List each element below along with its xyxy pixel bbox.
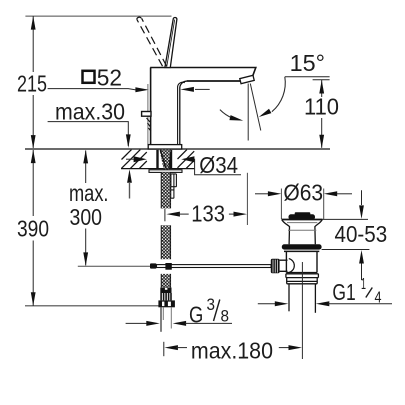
pull rod line (147, 84, 149, 145)
flexible hose braided segment 2 (161, 225, 171, 259)
dimension G1 1/4 (258, 303, 275, 305)
svg-text:3: 3 (207, 296, 216, 314)
pull-rod knob on left of body (142, 112, 151, 117)
flexible hose braided segment 3 (161, 274, 171, 287)
ball joint arc inside body (289, 259, 295, 273)
flexible hose braided segment 1 (161, 172, 171, 208)
counter bottom line (121, 168, 194, 170)
knurled knob (271, 259, 280, 274)
wire: extension line at lever-tip level (25, 15, 171, 17)
top edge and spout (150, 68, 256, 77)
dimension max.30 lower up arrow (127, 169, 132, 183)
drain flange (282, 219, 323, 221)
dimension 40-53 upper reference and arrow (323, 218, 369, 220)
drain lower band (287, 278, 318, 284)
svg-text:G1: G1 (332, 279, 355, 305)
faucet base plate (148, 145, 182, 149)
dimension 215 vertical line (32, 16, 34, 148)
dimension Ø63 (255, 193, 269, 195)
secondary stud right of hose (171, 174, 177, 198)
dimension G3/8 arrows (126, 322, 147, 324)
countertop cross-section hatching right (178, 150, 195, 169)
dimension 133 (164, 209, 166, 221)
rod joint at hose (165, 263, 171, 270)
hose end nut G3/8 (158, 300, 175, 307)
pop-up rod extension line (78, 265, 151, 267)
svg-text:40-53: 40-53 (335, 221, 388, 247)
drain lower ring (286, 274, 319, 278)
countertop cross-section hatching left (122, 150, 147, 169)
svg-text:110: 110 (304, 94, 339, 120)
pop-up rod horizontal (157, 265, 272, 268)
knob stem cylinder (280, 260, 288, 271)
lever handle (dashed alternate position) (137, 17, 167, 66)
dimension max.30 leader and down arrow (48, 122, 129, 146)
angle arc left segment with arrow (220, 110, 232, 118)
drain plug cap (289, 214, 316, 219)
dimension 390 vertical line (32, 150, 34, 306)
mounting nut side bars (156, 150, 158, 169)
faucet body outline (148, 68, 256, 145)
svg-text:52: 52 (97, 64, 122, 90)
Ø63 extension lines (280, 189, 282, 220)
hose crimp sleeve (160, 288, 171, 294)
washer under counter (149, 170, 182, 173)
svg-text:max.30: max.30 (55, 99, 125, 125)
drain tailpipe (288, 284, 290, 312)
dimension max.180 (163, 342, 165, 356)
dimension 110 (313, 79, 330, 81)
svg-text:1: 1 (361, 276, 366, 293)
drain center line (301, 262, 303, 359)
svg-text:max.: max. (69, 180, 109, 206)
label square-52 with underline leader and arrows (83, 71, 95, 83)
extension line for 133 at spout outlet (246, 173, 248, 225)
left wall (150, 68, 152, 145)
threaded shank (stippled, tapered) (160, 150, 172, 170)
svg-text:Ø34: Ø34 (199, 152, 238, 178)
svg-text:15°: 15° (290, 50, 325, 76)
svg-text:390: 390 (17, 216, 49, 242)
svg-text:max.180: max.180 (191, 337, 273, 363)
svg-text:4: 4 (375, 290, 382, 307)
aerator at spout tip (240, 75, 254, 83)
svg-text:G: G (189, 302, 203, 328)
svg-text:8: 8 (221, 308, 230, 326)
angle arc right segment with arrow (272, 77, 285, 112)
dimension 40-53 lower reference and arrow (322, 249, 370, 251)
inner wall with rounded corner (double line) (180, 81, 187, 144)
dimension Ø34 arrows (126, 158, 134, 160)
spout stream line tilted 15 degrees (250, 84, 260, 131)
pop-up rod cap (150, 263, 157, 268)
rubber gasket (282, 244, 322, 249)
bottom reference line (hose end level) (25, 305, 161, 307)
svg-text:Ø63: Ø63 (283, 180, 323, 206)
spout underside (187, 80, 241, 82)
svg-text:300: 300 (70, 204, 103, 230)
spout outlet vertical stream line (247, 84, 249, 141)
dimension max.300 vertical line (85, 151, 87, 266)
lever handle (solid, raised) (165, 17, 177, 67)
connection tube below nut (161, 307, 171, 332)
svg-text:133: 133 (191, 200, 225, 226)
countertop surface line (25, 148, 330, 150)
svg-text:215: 215 (17, 70, 47, 96)
drain body (286, 252, 317, 273)
